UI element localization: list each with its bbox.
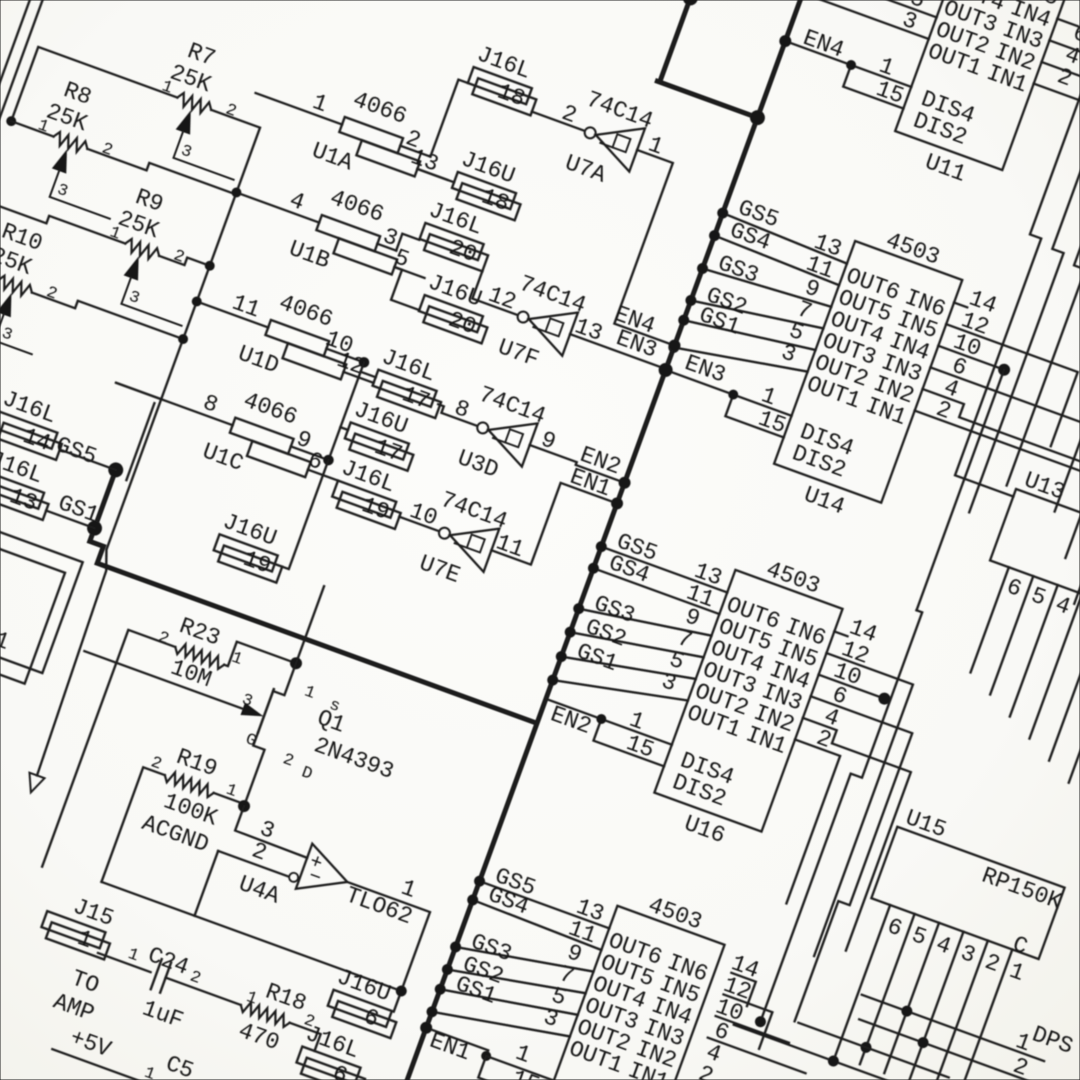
connector J16L-20	[416, 197, 501, 272]
op-amp U4A TL062	[235, 822, 424, 955]
analog switch U1D 4066	[184, 264, 393, 412]
connector J16U-6	[324, 964, 409, 1039]
wire U18 IN route 2	[716, 1016, 789, 1043]
junction on bus	[572, 602, 585, 615]
resistor R23 10M	[146, 608, 250, 701]
junction bus top entry	[681, 0, 699, 7]
wire U14 pin row 2 from bus	[713, 236, 840, 286]
wire R19 right to drain node	[214, 793, 245, 804]
resistor R18 470	[228, 972, 323, 1065]
junction GS1 left	[86, 519, 104, 537]
junction on bus	[555, 650, 568, 663]
wire Q1 gate	[84, 651, 248, 711]
wire U16 IN route 5	[741, 740, 840, 904]
IC U13 (partial)	[990, 465, 1080, 652]
junction long vertical	[754, 1015, 767, 1028]
wire U18 IN route 1	[710, 994, 772, 1048]
wire U1A input	[256, 93, 342, 124]
wire EN3 bus to U14 DIS	[666, 370, 734, 395]
junction node U1B	[231, 187, 243, 199]
wire U1C output	[291, 446, 329, 460]
potentiometer R9 25K	[88, 180, 222, 326]
wire EN4 bus to U11 DIS	[785, 41, 851, 65]
wire U1B ctl to J16U20	[384, 267, 431, 310]
bus: main heavy vertical	[404, 0, 804, 1080]
wire feedback bottom	[101, 882, 401, 991]
junction R8 left	[5, 115, 17, 127]
wire U18 IN route 3	[708, 1038, 806, 1074]
bus: left heavy branch	[84, 470, 570, 723]
wire U16 DIS4/DIS2 bracket	[601, 719, 671, 745]
junction on bus	[716, 207, 729, 220]
wire U18 pin row 1 from bus	[480, 881, 610, 928]
wire J16L18 to U7A in	[532, 112, 585, 131]
wire U15 pin 3	[909, 932, 964, 1080]
wire U13 pin 3	[1029, 594, 1080, 739]
junction on bus	[546, 674, 559, 687]
potentiometer R7 25K	[140, 34, 274, 180]
wire long vertical to lower right	[760, 608, 922, 1026]
IC U11 4503 hex buffer	[856, 0, 1080, 211]
wire U11 route 2	[888, 62, 1080, 512]
wire J15 to C24	[98, 953, 151, 972]
junction on bus	[441, 963, 454, 976]
wire U14 IN route 3	[899, 367, 1080, 511]
wire U14 IN route 0	[954, 303, 967, 308]
wire R23 right jog to Q1 source node	[224, 640, 296, 687]
junction U1D out	[358, 356, 370, 368]
junction node R9	[204, 260, 216, 272]
wire J16L13 to bus	[46, 511, 94, 529]
wire vertical J16 column	[328, 362, 364, 460]
junction node U1D	[191, 296, 203, 308]
wire U14 IN route 5	[871, 411, 1080, 604]
junction GS5 left	[107, 461, 125, 479]
wire U18 pin row 3 from bus	[456, 924, 594, 994]
wire J16L20 to U7F in	[472, 271, 527, 315]
wire U1C input	[116, 383, 233, 425]
wire Q1 drain	[233, 732, 270, 806]
wire U1A out up to J16L18	[430, 80, 467, 160]
wire lower horizontals crossing U15 pins	[734, 1025, 922, 1080]
wire U18 IN route 0	[722, 973, 755, 1006]
wire U1A output	[400, 146, 430, 157]
connector J16L-6	[292, 1021, 377, 1080]
IC U14 4503 hex buffer	[728, 205, 1009, 546]
wire U1B control	[394, 267, 424, 278]
junction U1C out	[322, 454, 334, 466]
wire U16 pin row 4 from bus	[570, 611, 703, 678]
IC U16 4503 hex buffer	[608, 533, 889, 874]
wire J16L17 to U3D in	[436, 404, 480, 426]
inverter U7F 74C14	[469, 262, 613, 390]
connector J16L-19	[328, 455, 413, 530]
wire drain to opamp +	[235, 806, 317, 858]
bus: left top heavy vertical	[660, 0, 695, 82]
wire U3D out to bus (EN2)	[529, 445, 626, 483]
wire R9 in lead	[0, 198, 125, 251]
capacitor C24 1uF	[127, 942, 207, 1035]
junction on bus	[426, 1005, 439, 1018]
wire stub parallel to node line	[126, 403, 154, 480]
junction IN3 route	[877, 692, 891, 706]
junction on bus	[667, 341, 680, 354]
wire U14 pin row 5 from bus	[684, 304, 816, 366]
connector J15	[38, 886, 122, 961]
junction on bus	[473, 875, 486, 888]
junction bus corner	[748, 109, 766, 127]
wire J16L17 left edge link	[361, 372, 376, 377]
wire U1A control	[417, 169, 447, 180]
wire U16 IN route 0	[834, 631, 847, 636]
wire U11 route 1	[899, 40, 1080, 496]
wire U1C control	[308, 470, 338, 481]
wire U18 pin row 4 from bus	[447, 946, 585, 1017]
wire R18 to J16L6	[284, 1023, 321, 1051]
wire U1B input	[240, 194, 319, 223]
analog switch U1B 4066	[224, 155, 444, 307]
wire opamp output	[311, 882, 430, 1012]
wire U1C in crossing node	[116, 383, 161, 399]
wire U16 pin row 5 from bus	[561, 633, 695, 702]
wire R9 out to node	[159, 248, 210, 273]
wire U16 IN route 1	[728, 653, 913, 956]
connector J16L-17	[369, 344, 454, 419]
junction on bus	[696, 262, 709, 275]
wire U16 pin row 3 from bus	[579, 590, 712, 655]
wire U7F out to bus (EN3)	[570, 334, 666, 369]
wire down to J16U19	[282, 458, 328, 569]
bus: top heavy horizontal	[657, 81, 757, 117]
wire U1D output	[326, 349, 364, 363]
wire U15 pin 6	[835, 905, 890, 1055]
wire C24 to R18	[166, 978, 241, 1005]
connector J16U-18	[448, 146, 533, 221]
wire - input vertical	[195, 851, 219, 916]
wire Q1 source jog	[273, 659, 296, 695]
wire U13 pin 5	[990, 576, 1033, 694]
wire U14 pin row 1 from bus	[721, 213, 849, 264]
wire U7A out to bus (EN4)	[579, 150, 733, 346]
wire U14 IN route 2	[938, 346, 1004, 370]
offpage arrow node end	[23, 773, 44, 795]
wire EN2 bus to U16 DIS	[546, 699, 601, 719]
wire U1B output	[377, 244, 396, 251]
wire U11 route 0	[1057, 19, 1078, 27]
wire U16 pin row 1 from bus	[601, 547, 727, 593]
wire U16 pin row 2 from bus	[593, 568, 719, 614]
junction pin crossing	[827, 1055, 840, 1068]
wire U1A ctl to J16U18	[417, 169, 454, 182]
wire U13 pin 1	[1069, 612, 1080, 783]
connector J16L-13	[0, 446, 61, 521]
connector J16L-18	[464, 41, 549, 116]
connector J16L-14	[0, 386, 74, 461]
wire R7 out to node	[188, 110, 260, 193]
wire U13 pin 4	[1010, 585, 1058, 717]
inverter U7A 74C14	[542, 80, 673, 204]
wire U14 pin row 6 from bus	[674, 326, 808, 393]
wire U1B out to J16L20	[396, 234, 419, 257]
junction on bus	[564, 626, 577, 639]
junction on bus	[466, 894, 479, 907]
junction R19/drain	[237, 799, 251, 813]
junction node R10	[177, 333, 189, 345]
junction on bus	[595, 540, 608, 553]
connector big left box (partial)	[0, 439, 83, 673]
wire R10 out to node	[32, 285, 183, 347]
wire U1D input	[201, 303, 269, 328]
wire U16 IN route 4	[733, 718, 916, 951]
wire U18 pin row 6 from bus	[432, 989, 570, 1059]
junction IN route	[997, 363, 1011, 377]
wire double line b	[0, 0, 43, 119]
wire J16L19 to U7E in	[399, 517, 438, 531]
wire U11 pin row from bus	[803, 0, 929, 39]
analog switch U1C 4066	[100, 344, 358, 509]
wire EN1 bus to U18 DIS	[424, 1028, 488, 1056]
potentiometer R10 25K	[0, 217, 75, 356]
wire R8 left stub	[11, 121, 53, 136]
junction on bus	[587, 562, 600, 575]
connector J16U-20	[415, 269, 500, 344]
junction on bus	[677, 314, 690, 327]
junction R23/Q1 source	[289, 656, 303, 670]
wire U16 pin row 6 from bus	[553, 655, 688, 726]
IC U15 RP150K	[871, 803, 1074, 959]
potentiometer R8 25K	[17, 73, 151, 219]
IC U18 4503 hex buffer	[501, 869, 772, 1080]
wire U14 pin row 3 from bus	[703, 261, 832, 314]
wire R19 left lead down	[101, 767, 164, 890]
wire U11 route 3	[901, 84, 1080, 486]
wire J16U17 left edge link	[340, 427, 348, 430]
wire U18 pin row 5 from bus	[440, 968, 578, 1037]
wire R23 left lead down	[42, 630, 175, 884]
wire U16 IN route 2	[819, 675, 885, 699]
junction on bus	[708, 229, 721, 242]
analog switch U1A 4066	[240, 55, 467, 210]
wire U18 pin row 2 from bus	[472, 900, 603, 950]
wire U11 pin row from bus	[811, 0, 937, 17]
wire U14 IN route 4	[885, 389, 1080, 558]
junction on bus	[685, 294, 698, 307]
connector J16U-17	[341, 397, 426, 472]
wire U13 pin 2	[1049, 603, 1080, 761]
transistor Q1 2N4393 JFET	[53, 594, 416, 850]
wire double line a	[0, 0, 30, 85]
wire U14 DIS4/DIS2 bracket	[733, 395, 791, 416]
junction on bus	[434, 983, 447, 996]
inverter U3D 74C14	[435, 375, 566, 499]
wire U11 DIS4/DIS2 bracket	[851, 65, 911, 87]
wire U13 pin 6	[971, 567, 1009, 672]
wire U1D control	[344, 372, 374, 383]
inverter U7E 74C14	[390, 478, 534, 606]
junction on bus	[449, 941, 462, 954]
wire - input	[218, 851, 288, 877]
wire U16 IN route 3	[704, 696, 912, 1025]
wire R8 out to node	[87, 141, 235, 202]
wires to DPS connector	[862, 995, 1044, 1061]
node line vertical	[26, 192, 248, 775]
wire U7E out to bus (EN1)	[491, 469, 617, 586]
wire U15 pin 2	[933, 941, 988, 1080]
wire J16L14 to bus	[60, 450, 116, 470]
wire U14 IN route 1	[919, 324, 1078, 446]
junction out/feedback	[395, 985, 408, 998]
connector J16U-19	[210, 509, 295, 584]
resistor R19 100K	[127, 736, 246, 861]
wire vertical crossing heavy bus to source node	[296, 586, 324, 663]
wire U15 pin 4	[884, 923, 939, 1073]
junction DPS wire pins	[900, 1005, 913, 1018]
wire U15 pin 5	[860, 914, 915, 1064]
wire U14 pin row 4 from bus	[691, 283, 823, 347]
wire U15 pin 1	[958, 949, 1013, 1080]
wire R7 top loop	[11, 47, 177, 172]
